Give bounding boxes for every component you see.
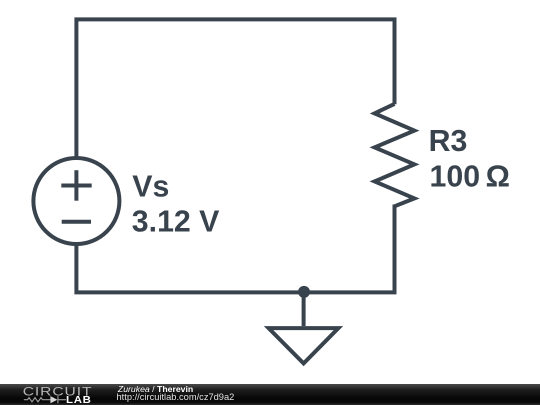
wire: Vs top terminal up, across top, down to R3 top lead — [76, 19, 394, 158]
footer credit: user / circuit name — [118, 385, 193, 394]
wire: Vs bottom terminal down to ground node — [76, 244, 303, 292]
svg-text:Vs: Vs — [132, 170, 169, 203]
logo diode triangle — [50, 396, 57, 403]
resistor R3: zigzag body — [375, 104, 415, 206]
logo resistor zigzag wire — [24, 396, 66, 403]
voltage source Vs: circle body — [33, 158, 119, 244]
svg-text:Ω: Ω — [486, 160, 510, 193]
CircuitLab logo — [0, 384, 110, 405]
svg-text:R3: R3 — [429, 125, 468, 158]
ground: stub wire — [302, 292, 306, 326]
svg-text:3.12 V: 3.12 V — [132, 205, 220, 238]
svg-text:100: 100 — [430, 160, 481, 193]
svg-text:LAB: LAB — [66, 395, 92, 405]
node: junction dot joining bottom wire and ground — [298, 286, 310, 298]
voltage source Vs: minus sign — [62, 220, 91, 224]
footer credit: circuit url — [117, 393, 235, 402]
wire: ground node to R3 bottom lead — [304, 205, 395, 293]
footer bar — [0, 384, 540, 405]
voltage source Vs: plus sign — [61, 170, 91, 201]
ground: triangle symbol — [269, 328, 339, 363]
